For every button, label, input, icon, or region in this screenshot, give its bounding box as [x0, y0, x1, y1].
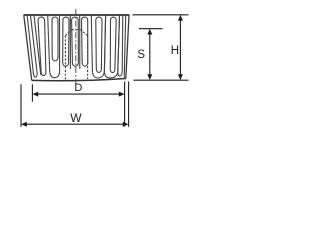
chamfer right slant [81, 30, 88, 36]
H arrow up [178, 15, 183, 21]
short line s1 [69, 16, 71, 70]
hole right side [87, 36, 89, 79]
knob body outline [24, 15, 130, 81]
W extension line left [20, 84, 22, 127]
svg-text:S: S [137, 49, 145, 61]
chamfer top [72, 29, 81, 31]
D arrow left [32, 92, 38, 97]
wide U slot H2-I [104, 16, 119, 78]
svg-text:D: D [74, 82, 82, 94]
line D [34, 16, 41, 75]
short line s2 [79, 16, 81, 70]
capsule rib center [72, 17, 79, 66]
D extension line left [31, 84, 33, 101]
ribs: single flute lines [27, 16, 126, 79]
svg-text:H: H [171, 45, 179, 57]
narrow U slot J-K [118, 16, 123, 77]
dimension W line [23, 123, 127, 125]
dimension D line [35, 93, 123, 95]
dimension H tick top [133, 14, 189, 16]
W arrow right [123, 122, 129, 127]
D extension line right [124, 82, 126, 127]
capsule rib 3 [63, 17, 69, 66]
capsule rib 1 [38, 17, 46, 75]
hidden hole dashed lines [65, 30, 87, 80]
H arrow down [178, 74, 183, 80]
capsule rib 6 [110, 17, 116, 73]
W arrow left [21, 122, 27, 127]
right edge [126, 15, 129, 79]
svg-text:W: W [70, 111, 82, 125]
dimension S tick top [139, 28, 163, 30]
chamfer left slant [65, 30, 71, 36]
S arrow up [147, 29, 152, 35]
W extension line right [128, 82, 130, 127]
hole left side [64, 36, 66, 80]
capsule rib 2 (short) [52, 17, 58, 61]
top edge [24, 14, 130, 16]
dimension H bottom extension [134, 79, 189, 81]
S arrow down [147, 74, 152, 80]
capsule rib 5 [96, 17, 102, 72]
dimension H line [179, 17, 181, 78]
dimension S line [149, 31, 151, 78]
bottom edge [32, 79, 126, 81]
wide U slot E-F [48, 16, 60, 78]
capsule rib 4 [82, 17, 88, 66]
D arrow right [119, 92, 125, 97]
last rib line K [124, 16, 126, 79]
wide U slot G-H [91, 16, 105, 79]
line B + C narrow U slot [27, 16, 37, 78]
left edge [24, 15, 32, 80]
vertical centerline [75, 9, 77, 85]
